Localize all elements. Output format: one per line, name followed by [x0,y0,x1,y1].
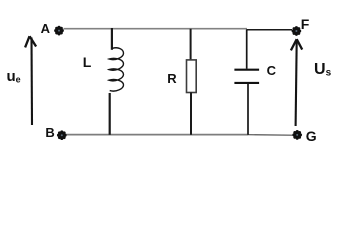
wire: bottom rail (gray) from node B to capacitor junction [64,134,248,136]
arrow U_s (output voltage, pointing up) [291,39,302,126]
label L [83,55,92,69]
wire: inductor top stub [111,28,113,50]
label B [45,126,54,139]
wire: inductor bottom stub [109,93,111,135]
wire: top rail (gray) from node A to capacitor junction [64,28,248,30]
label C [267,64,276,77]
capacitor C bottom plate [234,82,259,84]
wire: resistor top stub [190,29,192,60]
resistor R box [187,60,197,93]
node B terminal dot [57,130,67,140]
node F terminal dot [292,26,302,36]
node A terminal dot [54,26,64,36]
label G [306,129,317,143]
label F [301,17,310,31]
wire: capacitor top stub [246,30,248,69]
label R [167,72,176,85]
node G terminal dot [292,130,302,140]
label u_e [7,69,21,85]
wire: top rail right (black) from capacitor junction to node F [247,29,292,31]
label U_s [314,62,331,79]
wire: resistor bottom stub [190,92,192,134]
wire: bottom rail right (thin gray) from capacitor junction to node G [248,134,293,137]
label A [41,22,50,35]
inductor L coil [109,48,124,91]
wire: capacitor bottom stub [247,84,249,135]
arrow u_e (input voltage, pointing up) [25,36,36,125]
capacitor C top plate [234,69,259,71]
